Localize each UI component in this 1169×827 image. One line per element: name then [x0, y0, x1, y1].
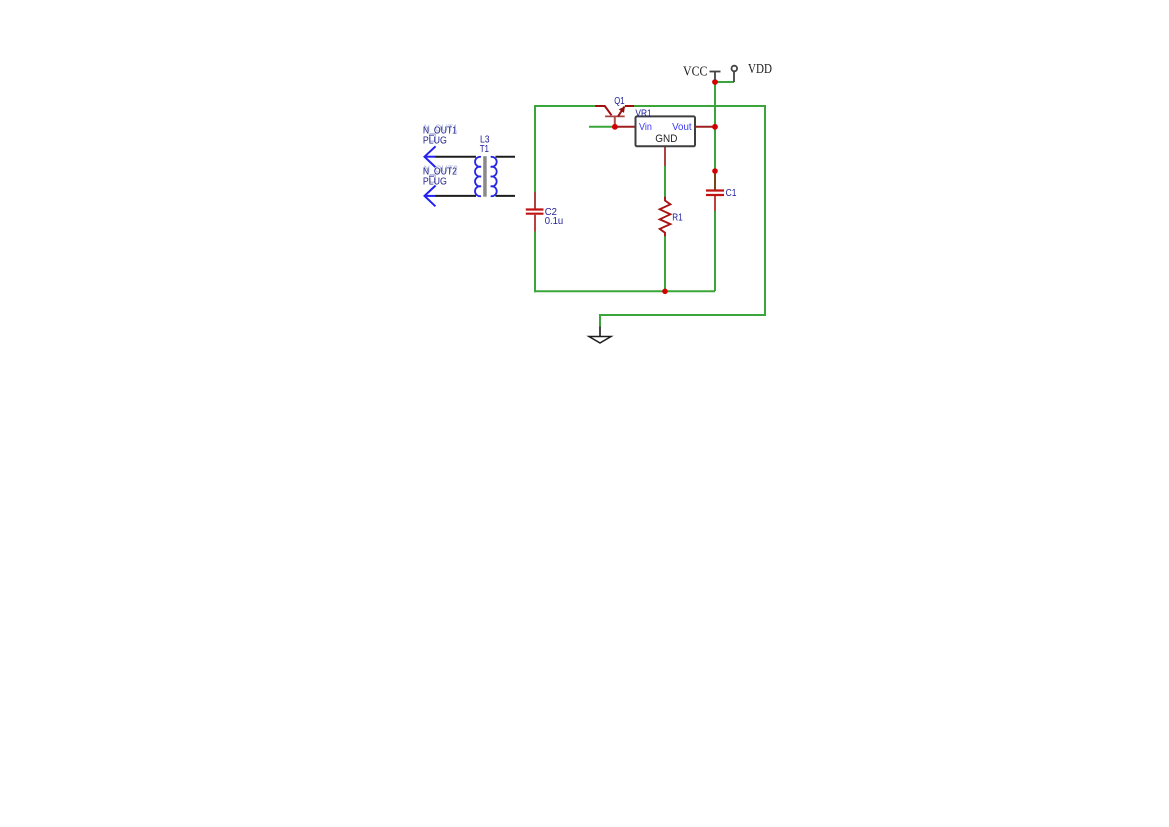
svg-text:VR1: VR1 [635, 108, 652, 119]
svg-text:Q1: Q1 [614, 96, 625, 107]
svg-text:Vout: Vout [672, 122, 692, 133]
svg-text:VCC: VCC [683, 65, 708, 80]
svg-text:GND: GND [655, 133, 677, 145]
svg-text:PLUG: PLUG [423, 135, 447, 146]
svg-text:R1: R1 [672, 213, 683, 224]
svg-text:Vin: Vin [639, 122, 652, 133]
svg-text:PLUG: PLUG [423, 176, 447, 187]
svg-text:VDD: VDD [748, 62, 772, 77]
svg-text:C1: C1 [726, 188, 737, 199]
svg-text:T1: T1 [480, 144, 490, 155]
svg-text:0.1u: 0.1u [545, 216, 564, 227]
